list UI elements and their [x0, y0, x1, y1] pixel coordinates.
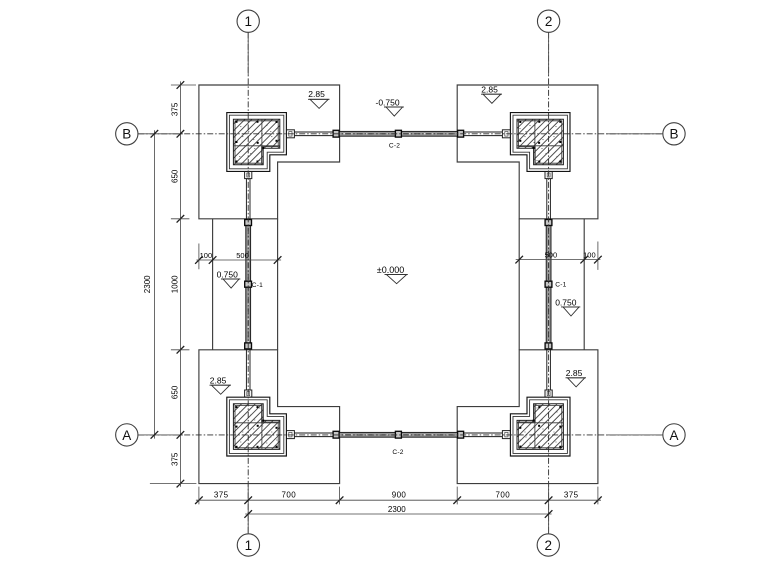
stub bottom-right column north: [545, 390, 552, 397]
beam C-2 top junction block: [333, 130, 339, 137]
beam C-2 top thin segment edges: [294, 132, 502, 136]
svg-text:A: A: [122, 428, 131, 443]
beam C-1 left junction block: [245, 220, 252, 226]
svg-text:375: 375: [171, 102, 180, 116]
svg-text:2300: 2300: [388, 505, 406, 514]
svg-text:0.750: 0.750: [555, 297, 577, 307]
beam C-1 left junction block: [245, 343, 252, 349]
strip edge right inner: [518, 219, 520, 350]
grid bubble 2 top: [537, 10, 559, 32]
stub top-right column south: [545, 171, 552, 178]
beam C-2 bottom middle segment (wide, gray): [334, 432, 463, 437]
svg-text:100: 100: [200, 251, 213, 260]
column Z1 bottom-right stirrup line: [519, 405, 562, 447]
mini dimension left (100/500): [196, 259, 281, 261]
svg-text:100: 100: [583, 251, 596, 260]
column Z1 bottom-left pedestal inner line: [229, 400, 283, 454]
beam C-2 bottom junction block: [333, 431, 339, 438]
svg-text:2.85: 2.85: [210, 376, 227, 386]
svg-text:B: B: [122, 127, 131, 142]
svg-text:700: 700: [496, 490, 511, 499]
column Z1 bottom-left stirrup line: [235, 405, 278, 447]
bottom dimension line 1: [196, 499, 601, 501]
column Z1 bottom-right rebar dots: [519, 406, 561, 448]
bottom dimension texts row 1: [214, 490, 579, 499]
column Z1 top-left concrete speckles: [239, 125, 277, 165]
svg-text:700: 700: [282, 490, 297, 499]
grid bubble B left: [116, 123, 138, 145]
beam C-1 left junction block: [245, 281, 252, 287]
beam C-2 bottom junction block: [458, 431, 464, 438]
svg-text:2300: 2300: [143, 275, 152, 293]
grid line solid end segments: [138, 32, 663, 533]
svg-text:1: 1: [244, 14, 252, 29]
svg-text:375: 375: [564, 490, 579, 499]
svg-text:A: A: [669, 428, 678, 443]
svg-text:2.85: 2.85: [566, 368, 583, 378]
beam C-2 top centerline light dashes: [336, 133, 461, 135]
beam C-1 right junction block: [545, 343, 552, 349]
mini dimension right (500/100): [516, 259, 601, 261]
grid line 1 (dash-dot): [247, 32, 249, 533]
svg-text:375: 375: [171, 452, 180, 466]
svg-text:C-1: C-1: [252, 282, 263, 289]
left dimension line 2 (2300): [153, 130, 155, 438]
svg-text:C-1: C-1: [555, 282, 566, 289]
column Z1 top-right concrete section with hatch: [517, 119, 563, 165]
column Z1 top-left rebar dots: [236, 121, 278, 163]
beam C-2 bottom thin segment edges: [294, 433, 502, 437]
grid bubble B right: [663, 123, 685, 145]
stub bottom-left column east: [286, 431, 294, 439]
stub bottom-left column north: [245, 390, 252, 397]
svg-text:2.85: 2.85: [308, 89, 325, 99]
column Z1 top-right white underlay: [510, 113, 570, 172]
column Z1 top-right concrete speckles: [519, 125, 557, 165]
grid bubble 1 bottom: [237, 534, 259, 556]
svg-text:C-2: C-2: [389, 143, 400, 150]
beam C-2 top junction block: [395, 130, 401, 137]
column Z1 top-left concrete section with hatch: [233, 119, 279, 165]
column Z1 bottom-right concrete section with hatch: [517, 404, 563, 450]
beam C-2 bottom junction block: [395, 431, 401, 438]
stub top-right column west: [502, 130, 510, 138]
left dimension extension lines: [150, 85, 197, 484]
svg-text:0.750: 0.750: [217, 269, 239, 279]
column Z1 top-left pedestal outer line: [227, 113, 287, 172]
svg-text:650: 650: [171, 169, 180, 183]
column Z1 bottom-right pedestal outer line: [510, 397, 570, 456]
svg-text:650: 650: [171, 385, 180, 399]
column Z1 top-left pedestal inner line: [229, 115, 283, 169]
column Z1 top-left subdivision lines: [261, 119, 263, 165]
bottom dimension line 2 (2300): [245, 513, 551, 515]
column Z1 top-right subdivision lines: [534, 119, 536, 165]
footing outline bottom-left: [199, 350, 340, 484]
column Z1 bottom-right subdivision lines: [534, 404, 536, 450]
column Z1 bottom-left concrete section with hatch: [233, 404, 279, 450]
grid line A (dash-dot): [138, 434, 663, 436]
column Z1 bottom-left concrete speckles: [239, 403, 277, 443]
footing outline bottom-right: [457, 350, 598, 484]
grid bubble A left: [116, 424, 138, 446]
stub bottom-right column west: [502, 431, 510, 439]
strip edge right outer: [583, 219, 585, 350]
svg-text:900: 900: [392, 490, 407, 499]
svg-text:2: 2: [545, 14, 553, 29]
column Z1 bottom-left subdivision lines: [261, 404, 263, 450]
svg-text:2: 2: [545, 538, 553, 553]
svg-text:500: 500: [545, 251, 558, 260]
beam C-1 left centerline light dashes: [247, 224, 249, 345]
column Z1 bottom-left pedestal outer line: [227, 397, 287, 456]
svg-text:B: B: [669, 127, 678, 142]
beam C-2 top middle segment (wide, gray): [334, 131, 463, 136]
stub top-left column south: [245, 171, 252, 178]
svg-text:500: 500: [236, 251, 249, 260]
column Z1 bottom-right concrete speckles: [519, 403, 557, 443]
grid bubble 1 top: [237, 10, 259, 32]
grid line B (dash-dot): [138, 133, 663, 135]
footing outline top-left: [199, 85, 340, 219]
column Z1 top-right stirrup line: [519, 121, 562, 163]
beam C-1 right centerline light dashes: [548, 224, 550, 345]
column Z1 bottom-left white underlay: [227, 397, 287, 456]
column Z1 top-left stirrup line: [235, 121, 278, 163]
beam C-1 right junction block: [545, 220, 552, 226]
svg-text:1000: 1000: [171, 275, 180, 293]
beam C-1 left thin segment edges: [246, 179, 250, 390]
strip edge left inner: [277, 219, 279, 350]
beam C-1 right junction block: [545, 281, 552, 287]
footing outline top-right: [457, 85, 598, 219]
grid bubble A right: [663, 424, 685, 446]
beam C-1 right thin segment edges: [547, 179, 551, 390]
beam C-2 top junction block: [458, 130, 464, 137]
svg-text:±0.000: ±0.000: [377, 265, 404, 275]
column Z1 bottom-left rebar dots: [236, 406, 278, 448]
column Z1 top-right rebar dots: [519, 121, 561, 163]
svg-text:2.85: 2.85: [481, 85, 498, 95]
left dimension line 1: [179, 81, 181, 486]
grid line 2 (dash-dot): [548, 32, 550, 533]
column Z1 bottom-right pedestal inner line: [513, 400, 567, 454]
bottom dimension extension lines: [199, 487, 598, 505]
svg-text:-0.750: -0.750: [376, 97, 400, 107]
svg-text:375: 375: [214, 490, 229, 499]
beam C-1 left middle segment (wide, gray): [246, 222, 251, 347]
beam C-2 bottom centerline light dashes: [336, 434, 461, 436]
svg-text:C-2: C-2: [392, 449, 403, 456]
stub top-left column east: [286, 130, 294, 138]
beam C-1 right middle segment (wide, gray): [546, 222, 551, 347]
column Z1 top-left white underlay: [227, 113, 287, 172]
column Z1 top-right pedestal inner line: [513, 115, 567, 169]
column Z1 bottom-right white underlay: [510, 397, 570, 456]
column Z1 top-right pedestal outer line: [510, 113, 570, 172]
svg-text:1: 1: [245, 538, 253, 553]
strip edge left outer: [212, 219, 214, 350]
grid bubble 2 bottom: [537, 534, 559, 556]
